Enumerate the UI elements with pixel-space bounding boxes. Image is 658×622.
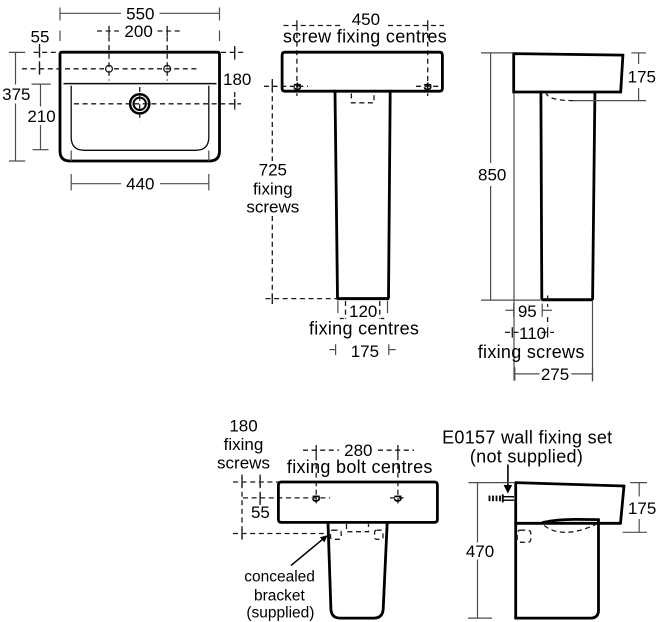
dim 275 right bar <box>592 367 594 380</box>
ledge line <box>64 83 217 85</box>
svg-text:95: 95 <box>518 302 537 321</box>
drain inner circle <box>134 98 146 110</box>
semi-pedestal outline <box>328 522 387 618</box>
dim 210 bottom bar <box>33 149 49 151</box>
fixing screw symbol left <box>294 83 301 90</box>
pedestal bottom edge <box>337 297 389 300</box>
dim 180 dashed vertical <box>241 475 243 542</box>
dim 110 dashed left <box>505 331 519 333</box>
svg-text:180: 180 <box>223 70 251 89</box>
svg-text:fixing screws: fixing screws <box>478 342 585 362</box>
dim 120 end dash left <box>340 318 344 320</box>
svg-text:275: 275 <box>541 365 569 384</box>
svg-text:(supplied): (supplied) <box>246 605 314 622</box>
dim 175 right stub <box>389 349 396 351</box>
svg-text:55: 55 <box>31 28 50 47</box>
bolt centreline left <box>315 455 317 505</box>
dim 200 cross left <box>108 26 110 36</box>
semi-pedestal top edge <box>543 519 599 522</box>
dim 95 right bar <box>541 304 543 317</box>
tap hole centreline right <box>166 37 168 81</box>
svg-text:110: 110 <box>519 324 546 343</box>
dim 470 bottom bar <box>468 617 492 619</box>
svg-text:175: 175 <box>628 499 656 518</box>
concealed bracket tab left <box>331 530 342 539</box>
basin side outline <box>514 54 623 92</box>
dim 850 top bar <box>481 52 514 54</box>
cross ticks 725 dim <box>271 81 273 91</box>
dim 375 top bar <box>9 51 25 53</box>
dim 175 line <box>638 483 640 497</box>
dim 725 dashed vertical <box>271 79 273 161</box>
dim 200 dashed line <box>97 30 119 32</box>
dim 175 left stub <box>329 349 335 351</box>
dim 210 line <box>40 84 42 106</box>
svg-text:440: 440 <box>126 175 154 194</box>
pedestal left edge <box>335 91 338 297</box>
svg-text:E0157 wall fixing set: E0157 wall fixing set <box>442 428 612 448</box>
dashed extension basin top <box>34 51 60 53</box>
cross ticks 180/55 fig4 <box>241 477 243 487</box>
pedestal ext line right <box>592 302 594 382</box>
dashed ext basin top <box>233 481 278 483</box>
basin front outline <box>282 52 442 91</box>
dim 175 bottom bar and ext <box>623 531 647 533</box>
wall fixing screw symbol <box>490 494 515 502</box>
pedestal corner ext right <box>387 301 389 314</box>
dim 275 left bar <box>514 367 516 380</box>
dim 95 left bar <box>513 304 515 317</box>
dim 280 cross right <box>397 445 399 455</box>
svg-text:470: 470 <box>466 542 494 561</box>
dim 450 dashed line <box>284 25 342 27</box>
svg-text:fixing: fixing <box>253 180 293 199</box>
concealed bracket dashed centre <box>347 524 369 532</box>
hidden bowl dashed arc <box>546 92 573 101</box>
dim 440 ext left <box>70 151 72 162</box>
wall line <box>514 483 517 618</box>
dashed overflow bracket <box>351 94 374 103</box>
dim 470 top bar <box>469 482 516 484</box>
pedestal side right edge <box>593 92 595 299</box>
basin front outline <box>278 482 437 522</box>
dim 120 ext dashed right <box>379 301 381 319</box>
svg-text:screws: screws <box>246 198 299 217</box>
screw centreline right <box>427 33 429 96</box>
svg-text:210: 210 <box>27 107 55 126</box>
concealed bracket tab right <box>375 530 383 539</box>
svg-text:(not supplied): (not supplied) <box>470 447 583 467</box>
inner bowl <box>71 86 209 151</box>
dim 275 line <box>515 373 540 375</box>
basin side right edge <box>621 486 625 523</box>
dim 175 right bar <box>388 344 390 355</box>
dim 180 dashed top extension <box>221 51 244 53</box>
tap hole right <box>164 65 171 72</box>
svg-text:fixing bolt centres: fixing bolt centres <box>287 457 433 477</box>
dim 95 right stub <box>542 309 552 311</box>
dim 450 cross left <box>296 20 298 30</box>
cross ticks 180 dim <box>234 47 236 57</box>
dim 95 left stub <box>506 309 514 311</box>
dim 180 dashed vertical <box>234 46 236 60</box>
svg-text:concealed: concealed <box>244 569 315 586</box>
dim 440 ext right <box>208 151 210 162</box>
svg-text:fixing centres: fixing centres <box>309 319 419 339</box>
dim 550 tick left <box>59 8 61 21</box>
drain crosshair horizontal <box>74 103 241 105</box>
arrow to bracket <box>291 539 324 566</box>
dashed tap line left extension <box>22 68 104 70</box>
tap hole centreline left <box>108 37 110 81</box>
dashed bracket line <box>233 533 324 535</box>
dim 120 end dash right <box>381 318 384 320</box>
pedestal side left edge <box>540 92 544 299</box>
arrow down <box>507 465 509 487</box>
dim 550 line <box>60 12 121 14</box>
dim 175 top bar <box>630 482 647 484</box>
dim 200 cross right <box>166 26 168 36</box>
dim 175 top bar <box>631 52 646 54</box>
dim 280 cross left <box>315 445 317 455</box>
svg-text:175: 175 <box>628 68 656 87</box>
pedestal right edge <box>389 91 391 297</box>
dim 550 tick right <box>219 8 221 21</box>
dim 470 line <box>477 483 479 543</box>
svg-text:850: 850 <box>478 165 506 184</box>
dim 120 ext dashed left <box>345 301 347 319</box>
dim 450 cross right <box>427 20 429 30</box>
svg-text:550: 550 <box>126 4 154 23</box>
bolt symbol left <box>313 496 320 501</box>
pedestal side bottom edge <box>542 298 594 301</box>
dim 55 dashed vertical <box>39 44 41 76</box>
dim 375 line <box>15 52 17 84</box>
dim 440 line <box>71 183 121 185</box>
basin outline plan <box>60 52 220 161</box>
svg-text:fixing: fixing <box>224 435 264 454</box>
dim 280 dashed line <box>303 449 339 451</box>
hidden bowl dashed curve <box>544 524 597 533</box>
dashed bolt line <box>243 497 330 499</box>
floor dashed line <box>266 298 338 300</box>
cross ticks 55 dim <box>39 47 41 57</box>
basin side bottom edge <box>516 522 621 525</box>
drain outer circle <box>130 94 149 113</box>
svg-text:screw fixing centres: screw fixing centres <box>283 27 447 47</box>
svg-text:180: 180 <box>229 417 257 436</box>
bolt centreline right <box>397 455 399 505</box>
svg-text:175: 175 <box>351 342 379 361</box>
dim 375 bottom bar <box>9 160 25 162</box>
dim 850 line <box>490 53 492 163</box>
dim 850 bottom bar <box>481 299 541 301</box>
svg-text:bracket: bracket <box>254 588 306 605</box>
bolt symbol right <box>394 496 401 501</box>
dim 210 top bar <box>32 83 51 85</box>
screw height dashed line <box>264 85 308 87</box>
dim 110 dashed right <box>542 331 555 333</box>
dim 55 dashed vertical <box>259 475 261 506</box>
svg-text:375: 375 <box>2 85 30 104</box>
svg-text:725: 725 <box>259 161 287 180</box>
fixing screw symbol right <box>424 83 431 90</box>
svg-text:screws: screws <box>217 454 270 473</box>
semi-pedestal front and bottom <box>516 520 599 619</box>
svg-text:200: 200 <box>124 22 152 41</box>
basin front ext line <box>513 93 515 381</box>
ext line to 175 bottom <box>573 100 646 102</box>
basin side top edge <box>516 483 624 486</box>
dim 110 dashed vertical ext <box>547 296 549 308</box>
dim 175 line <box>638 53 640 64</box>
drain crosshair vertical <box>139 87 141 122</box>
svg-text:55: 55 <box>251 503 270 522</box>
dim 175 left bar <box>335 344 337 355</box>
screw centreline left <box>296 33 298 96</box>
bracket side dashed <box>517 530 531 542</box>
pedestal corner ext left <box>337 301 339 314</box>
tap hole left <box>106 65 113 72</box>
